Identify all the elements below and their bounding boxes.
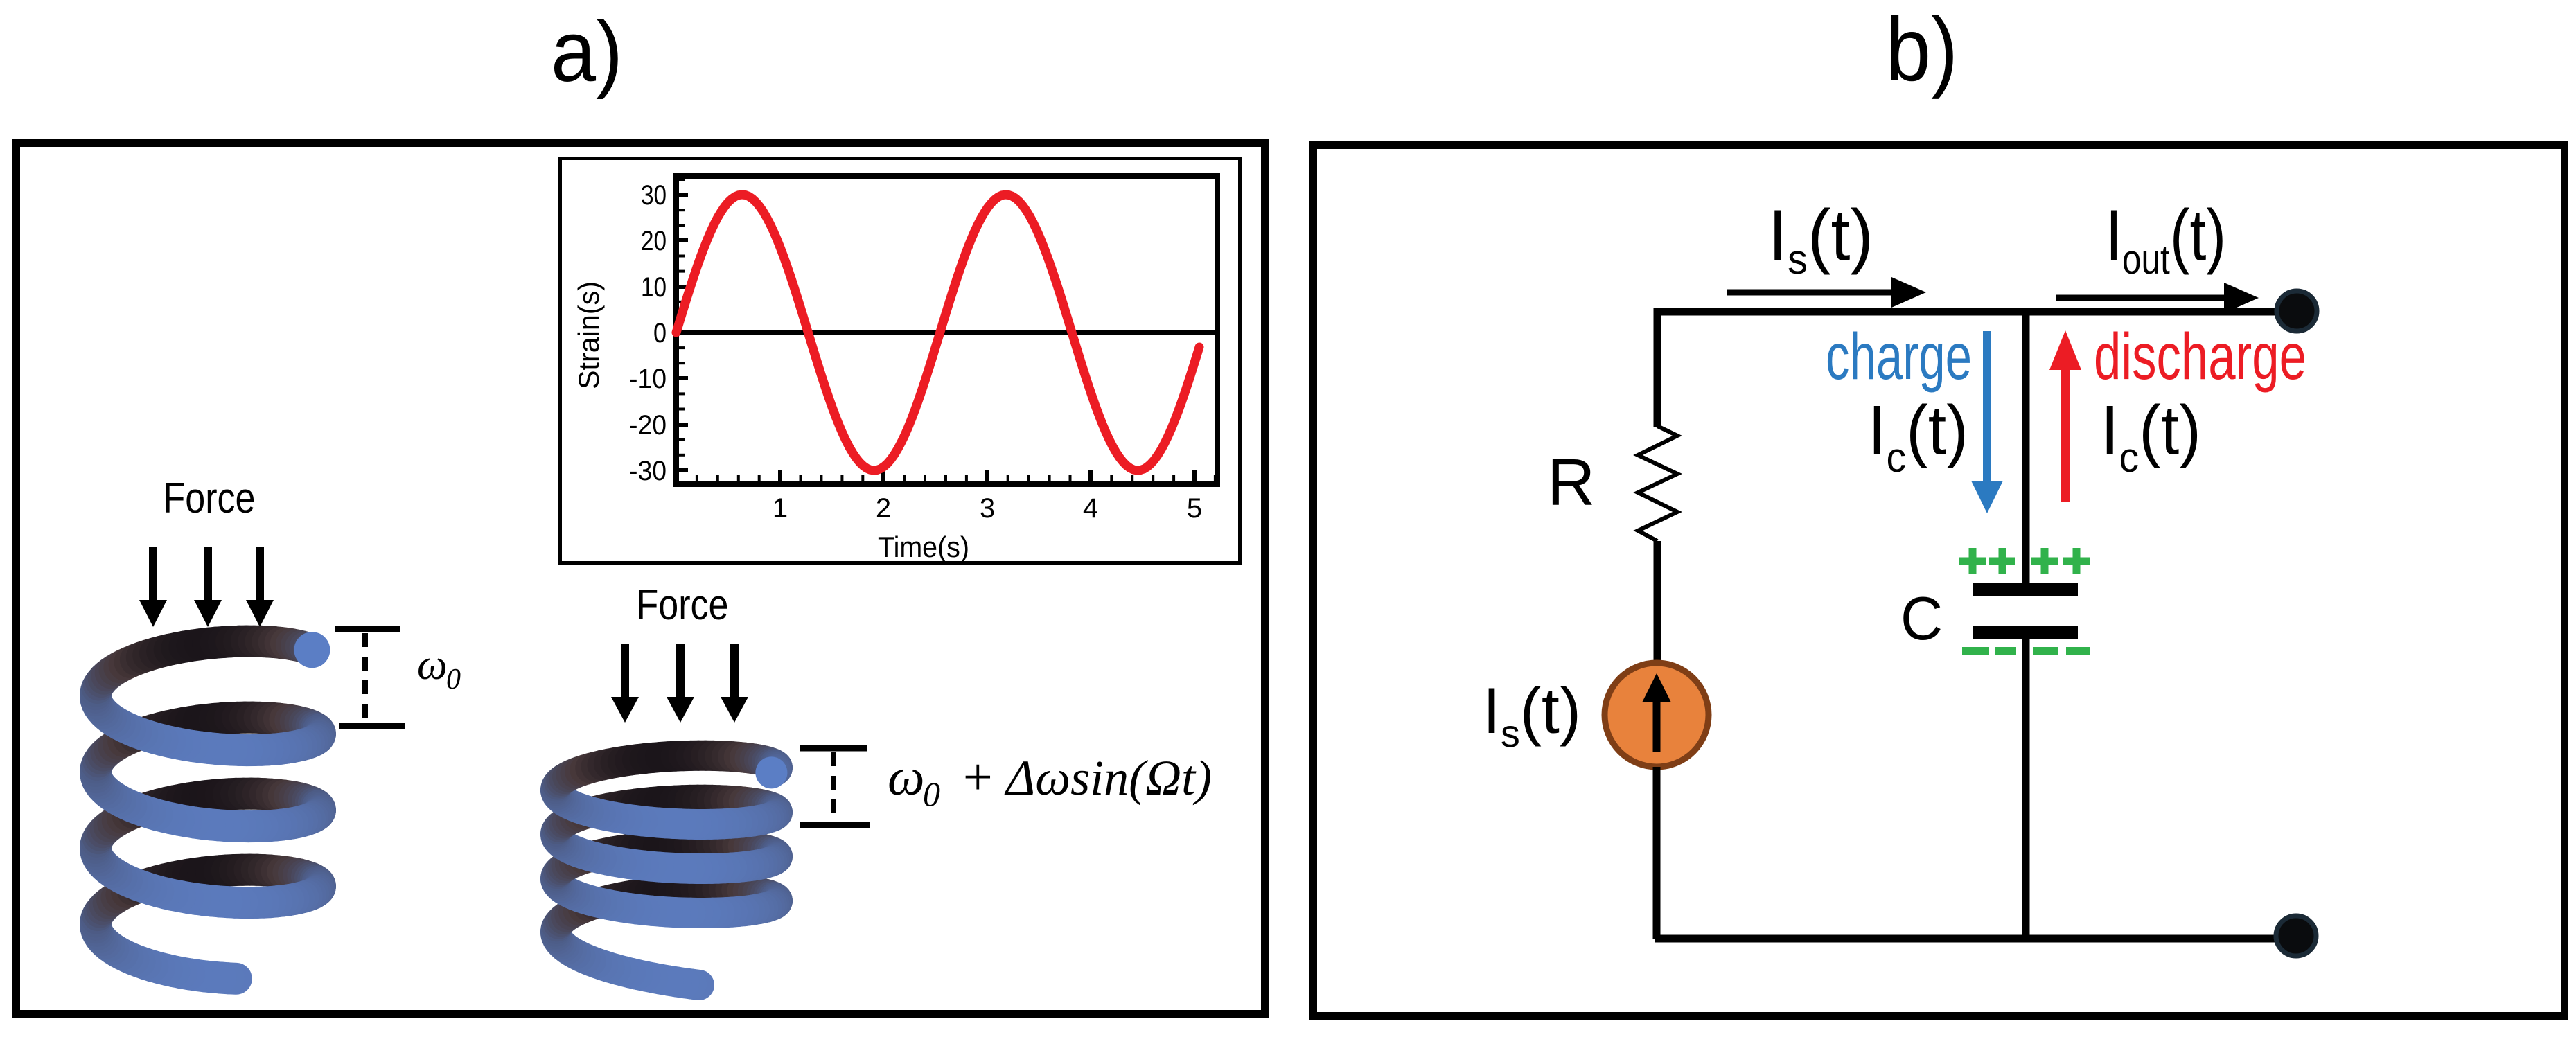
left spring (relaxed, pitch w0) bbox=[96, 632, 330, 979]
discharge arrow (red) bbox=[2061, 369, 2070, 502]
strain sine curve bbox=[676, 195, 1199, 470]
svg-text:+: + bbox=[960, 748, 995, 806]
capacitor C top plate bbox=[1973, 583, 2078, 596]
x tick labels bbox=[773, 493, 1202, 524]
output node bottom bbox=[2276, 916, 2316, 956]
svg-text:ω: ω bbox=[417, 641, 448, 689]
svg-text:Time(s): Time(s) bbox=[878, 531, 969, 563]
top wire bbox=[1654, 308, 2297, 316]
svg-text:charge: charge bbox=[1826, 320, 1972, 393]
wire resistor to source bbox=[1654, 541, 1661, 663]
svg-text:4: 4 bbox=[1083, 493, 1098, 524]
svg-text:20: 20 bbox=[641, 226, 667, 256]
svg-text:5: 5 bbox=[1187, 493, 1202, 524]
capacitor C bottom plate bbox=[1973, 626, 2078, 639]
svg-text:Strain(s): Strain(s) bbox=[572, 281, 605, 389]
svg-text:a): a) bbox=[551, 4, 623, 100]
wire source to bottom bbox=[1653, 767, 1661, 939]
svg-text:R: R bbox=[1547, 445, 1595, 520]
svg-text:3: 3 bbox=[980, 493, 995, 524]
right force arrows bbox=[611, 644, 748, 723]
svg-text:0: 0 bbox=[446, 664, 461, 695]
output node top bbox=[2277, 291, 2317, 331]
svg-text:Force: Force bbox=[164, 475, 256, 522]
svg-text:2: 2 bbox=[876, 493, 891, 524]
resistor R zigzag bbox=[1638, 426, 1677, 541]
svg-text:-10: -10 bbox=[629, 364, 667, 394]
right spring (compressed, modulated pitch) bbox=[556, 756, 787, 985]
svg-text:Force: Force bbox=[637, 581, 729, 629]
Iout(t) arrow bbox=[2056, 295, 2224, 301]
svg-text:ω: ω bbox=[888, 748, 925, 806]
panel a frame bbox=[17, 143, 1265, 1014]
svg-text:1: 1 bbox=[773, 493, 788, 524]
svg-text:-30: -30 bbox=[629, 456, 667, 486]
modulated pitch dimension marker bbox=[800, 748, 870, 825]
panel b frame bbox=[1314, 145, 2565, 1016]
current source Is circle bbox=[1605, 663, 1709, 767]
capacitor branch wire upper bbox=[2022, 312, 2030, 583]
Is(t) arrow bbox=[1727, 290, 1891, 296]
svg-text:Is(t): Is(t) bbox=[1483, 674, 1581, 755]
svg-text:discharge: discharge bbox=[2094, 320, 2306, 393]
bottom wire bbox=[1655, 935, 2296, 943]
plot frame bbox=[676, 176, 1217, 484]
current source arrow bbox=[1653, 702, 1661, 752]
w0 dimension marker bbox=[335, 629, 405, 726]
svg-text:30: 30 bbox=[641, 180, 667, 211]
y tick labels bbox=[629, 180, 667, 486]
svg-text:C: C bbox=[1900, 584, 1943, 653]
svg-text:Is(t): Is(t) bbox=[1768, 195, 1873, 283]
zero axis line bbox=[676, 330, 1217, 335]
svg-text:0: 0 bbox=[923, 774, 940, 813]
positive charges bbox=[1959, 548, 2090, 574]
inset plot box bbox=[561, 159, 1240, 563]
pitch formula bbox=[888, 748, 1212, 813]
svg-text:10: 10 bbox=[641, 272, 667, 303]
svg-text:Δωsin(Ωt): Δωsin(Ωt) bbox=[1004, 750, 1212, 806]
capacitor branch wire lower bbox=[2022, 639, 2030, 939]
svg-text:Ic(t): Ic(t) bbox=[1868, 391, 1968, 481]
axis ticks bbox=[679, 179, 1215, 481]
svg-text:-20: -20 bbox=[629, 410, 667, 441]
charge arrow (blue) bbox=[1983, 331, 1991, 483]
svg-text:Ic(t): Ic(t) bbox=[2101, 391, 2201, 481]
svg-text:0: 0 bbox=[653, 318, 667, 348]
left branch wire upper bbox=[1654, 308, 1661, 427]
svg-text:b): b) bbox=[1886, 0, 1958, 100]
left force arrows bbox=[139, 547, 274, 627]
negative charges bbox=[1962, 647, 2090, 655]
